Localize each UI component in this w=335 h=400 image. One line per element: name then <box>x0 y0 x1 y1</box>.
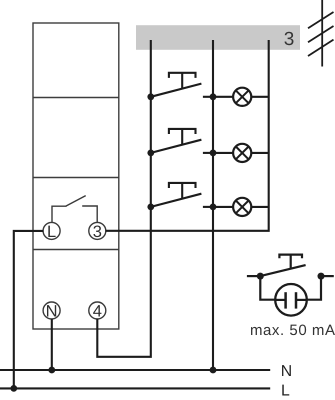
cable line (3-core cable going up) <box>321 0 323 67</box>
terminal 4 <box>89 302 106 319</box>
push-button S1 actuator <box>169 73 196 88</box>
wire lamp E1 to right rail <box>251 96 269 98</box>
push-button S1 blade <box>151 84 202 97</box>
junction dot L line <box>10 385 17 392</box>
cable slash 3 <box>308 40 334 56</box>
svg-text:L: L <box>47 223 56 241</box>
junction dot N line at middle rail <box>210 367 217 374</box>
push-button S2 blade <box>151 140 202 153</box>
lamp E1 <box>233 88 251 106</box>
node S3 right <box>210 204 217 211</box>
device divider 1 <box>33 97 119 99</box>
terminal L <box>43 222 60 239</box>
L line <box>0 387 270 389</box>
middle lamp rail to N line <box>212 40 214 370</box>
svg-text:N: N <box>46 303 58 321</box>
left push-button rail and wire to terminal 4 <box>97 40 151 357</box>
cable duct / distribution bar <box>136 25 300 50</box>
cable slash 1 <box>308 12 334 28</box>
illuminated push-button blade <box>260 265 305 276</box>
push-button S3 blade <box>151 194 202 207</box>
wire lamp E3 to right rail <box>251 206 269 208</box>
device divider 3 <box>33 249 119 251</box>
timer device outline <box>33 23 119 329</box>
junction dot N line at N wire <box>48 367 55 374</box>
node push-button right <box>318 273 325 280</box>
wire left lead of illuminated push-button <box>247 275 260 277</box>
lamp E3 <box>233 198 251 216</box>
internal relay contact L-3 <box>52 196 97 223</box>
node S1 left <box>147 93 154 100</box>
wire from terminal L to L line <box>14 231 44 389</box>
svg-text:N: N <box>281 363 292 380</box>
node S2 left <box>147 150 154 157</box>
terminal 3 <box>89 222 106 239</box>
svg-text:max. 50 mA: max. 50 mA <box>250 322 335 339</box>
lamp E2 <box>233 144 251 162</box>
svg-text:L: L <box>281 382 290 399</box>
node push-button left <box>257 273 264 280</box>
device divider 2 <box>33 177 119 179</box>
wire glow lamp branch left <box>260 276 274 300</box>
illuminated push-button actuator <box>279 255 302 269</box>
terminal N <box>43 302 60 319</box>
wire S1 contact to lamp rail <box>203 96 213 98</box>
wire rail to lamp E3 <box>213 206 234 208</box>
svg-text:3: 3 <box>284 29 295 50</box>
node S3 left <box>147 204 154 211</box>
wire right lead of illuminated push-button <box>321 275 334 277</box>
wire rail to lamp E1 <box>213 96 234 98</box>
node S1 right <box>210 93 217 100</box>
wire S2 contact to lamp rail <box>203 152 213 154</box>
push-button S2 actuator <box>169 129 196 144</box>
wire glow lamp branch right <box>307 276 321 300</box>
cable slash 2 <box>308 26 334 42</box>
wire lamp E2 to right rail <box>251 152 269 154</box>
svg-text:3: 3 <box>93 223 102 241</box>
N line <box>0 369 270 371</box>
wire from terminal N to N line <box>51 319 53 370</box>
push-button S3 actuator <box>169 183 196 198</box>
svg-text:4: 4 <box>93 303 102 321</box>
node S2 right <box>210 150 217 157</box>
glow lamp <box>275 284 308 316</box>
wire from terminal 3 to right lamp rail <box>106 40 269 231</box>
wire rail to lamp E2 <box>213 152 234 154</box>
wire S3 contact to lamp rail <box>203 206 213 208</box>
